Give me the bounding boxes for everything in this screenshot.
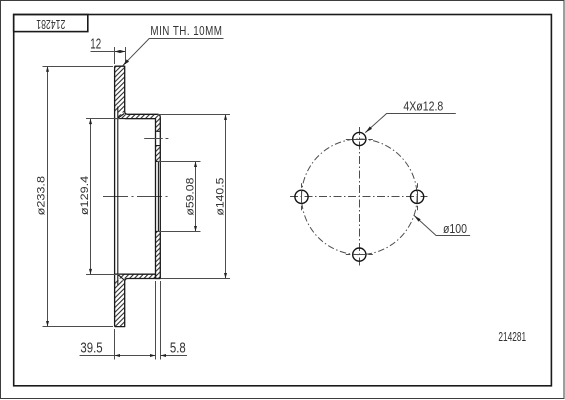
leader 4X12.8 arrow <box>365 126 372 132</box>
svg-text:ø100: ø100 <box>443 221 467 236</box>
hole top tick horizontal <box>346 139 373 141</box>
bore silhouette <box>157 161 159 231</box>
svg-text:214281: 214281 <box>36 17 65 31</box>
bar inner line top <box>115 118 156 120</box>
dim 233.8 arrows <box>46 66 49 72</box>
hatch top bar+wall <box>118 114 161 131</box>
disc outline top <box>115 66 161 278</box>
hole top <box>353 132 366 145</box>
arrows 39.5 <box>115 354 121 357</box>
svg-text:ø59.08: ø59.08 <box>184 177 196 215</box>
dim 5.8 line <box>161 355 188 357</box>
dim 233.8 line <box>47 66 49 326</box>
hole left <box>295 190 308 203</box>
hole right tick vertical <box>417 183 419 210</box>
arrow 5.8 <box>161 354 167 357</box>
main centerline vertical <box>359 127 361 266</box>
dim 59.08 arrows <box>194 162 197 168</box>
hole left tick vertical <box>301 183 303 210</box>
svg-text:ø140.5: ø140.5 <box>214 177 226 215</box>
disc inner band edge <box>117 107 119 286</box>
hatch top L-region <box>115 66 125 112</box>
dim 140.5 ext lines <box>158 115 230 279</box>
leader arrow <box>123 59 129 65</box>
hole bottom tick horizontal <box>346 254 373 256</box>
svg-text:ø129.4: ø129.4 <box>78 175 91 215</box>
hole right <box>411 190 424 203</box>
leader 100 <box>414 215 470 235</box>
dim 140.5 arrows <box>224 114 227 120</box>
svg-text:ø233.8: ø233.8 <box>34 176 47 216</box>
hatch bottom band <box>115 280 125 326</box>
dim 59.08 ext lines <box>158 162 201 232</box>
leader 4X12.8 <box>365 114 456 133</box>
disc outline bottom <box>115 274 161 326</box>
dim 39.5 / 5.8 ext lines <box>115 281 161 360</box>
dim 12 arrows <box>115 50 121 53</box>
disc left face full height <box>114 66 116 326</box>
dim 233.8 ext lines <box>43 67 114 327</box>
svg-text:12: 12 <box>90 35 101 52</box>
leader 100 arrow <box>414 215 421 221</box>
leader MIN TH <box>123 39 224 66</box>
hatch bottom L-region <box>118 231 161 278</box>
dim 12 line <box>91 51 126 53</box>
dim 39.5 line <box>80 355 156 357</box>
bolt hole edges in wall <box>156 131 161 145</box>
fillet chamfer top junction <box>118 114 124 281</box>
main centerline horizontal <box>290 196 428 198</box>
title box top-left <box>14 15 88 32</box>
svg-text:4Xø12.8: 4Xø12.8 <box>403 98 443 113</box>
svg-text:39.5: 39.5 <box>80 339 102 356</box>
dim 129.4 ext lines <box>86 119 122 275</box>
dim 12 ext lines <box>115 47 126 64</box>
bolt hole centerline <box>144 138 168 140</box>
svg-text:214281: 214281 <box>498 330 526 344</box>
dim 129.4 arrows <box>89 119 92 125</box>
dim 140.5 line <box>225 114 227 278</box>
hole bottom <box>353 248 366 261</box>
centerline horizontal <box>103 196 168 198</box>
dim 59.08 line <box>195 162 197 232</box>
svg-text:MIN TH. 10MM: MIN TH. 10MM <box>150 25 222 38</box>
svg-text:5.8: 5.8 <box>170 339 186 356</box>
hatch wall between hole and bore <box>156 146 161 162</box>
dim 129.4 line <box>90 119 92 275</box>
bolt circle <box>302 139 418 255</box>
bore edges <box>156 161 161 231</box>
